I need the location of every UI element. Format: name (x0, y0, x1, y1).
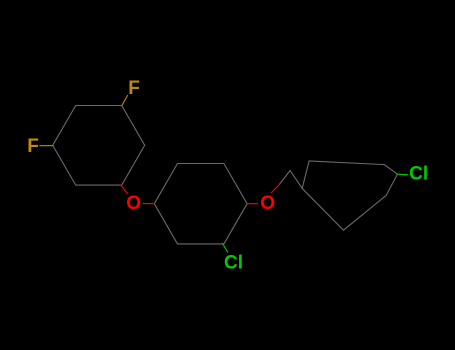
svg-text:F: F (128, 78, 140, 99)
svg-text:O: O (126, 193, 141, 214)
svg-text:F: F (27, 136, 39, 157)
svg-text:Cl: Cl (409, 164, 428, 185)
svg-text:Cl: Cl (224, 252, 243, 273)
svg-text:O: O (260, 193, 275, 214)
